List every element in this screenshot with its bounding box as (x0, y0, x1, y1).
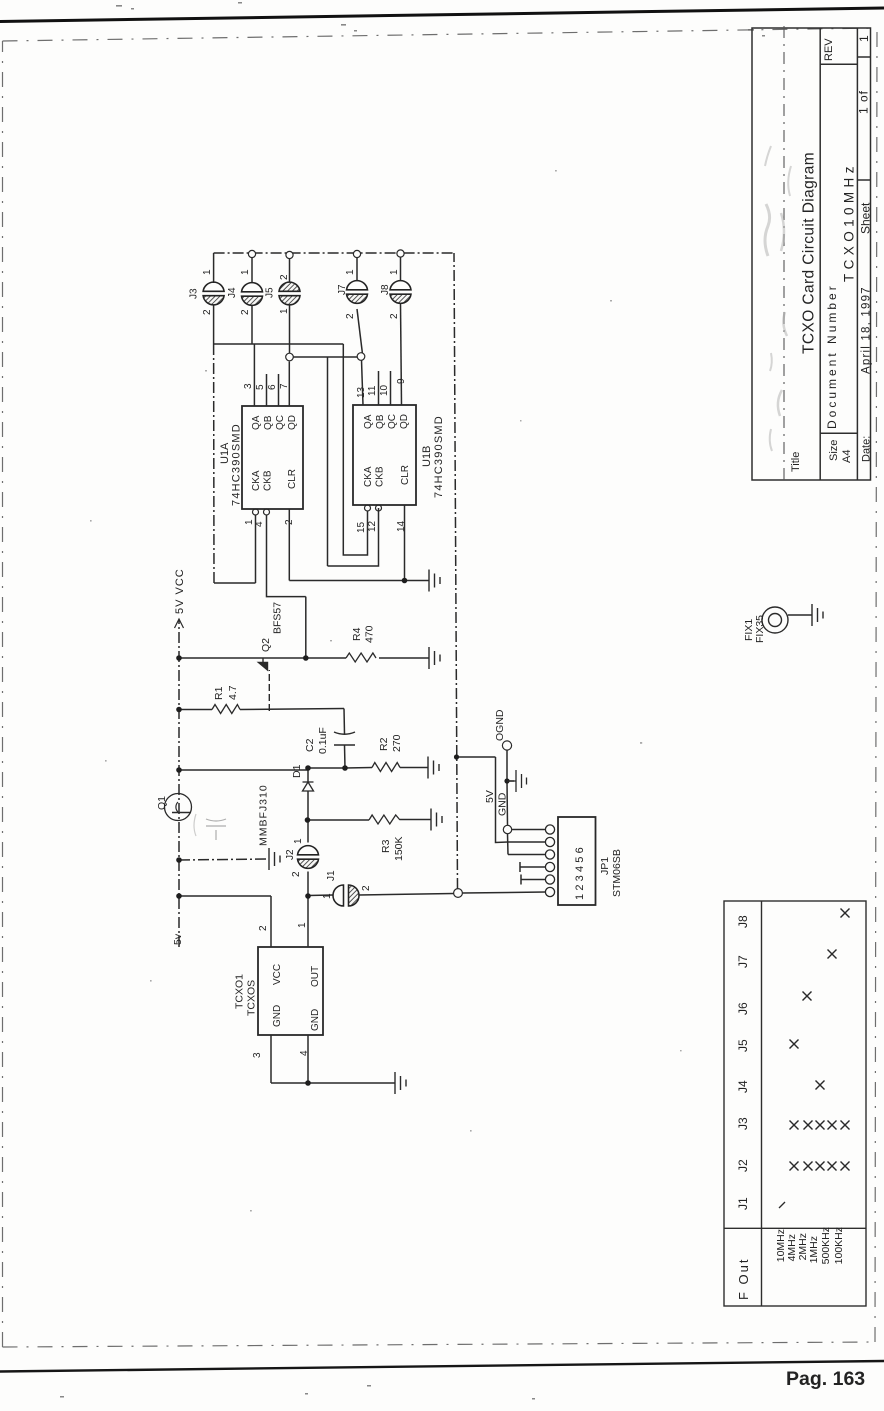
svg-text:J5: J5 (265, 287, 276, 298)
svg-text:150K: 150K (393, 836, 405, 861)
svg-text:2: 2 (279, 274, 290, 280)
svg-text:R1: R1 (213, 686, 225, 700)
svg-text:2: 2 (291, 871, 302, 877)
svg-text:U1A: U1A (219, 442, 231, 464)
svg-text:A4: A4 (841, 450, 853, 463)
svg-text:10: 10 (379, 384, 390, 396)
svg-text:1: 1 (297, 922, 308, 928)
svg-text:R4: R4 (351, 627, 363, 641)
svg-text:3: 3 (243, 383, 254, 389)
svg-text:Document Number: Document Number (825, 283, 839, 429)
svg-text:TCXO1: TCXO1 (234, 974, 246, 1009)
svg-text:Date:: Date: (861, 436, 873, 462)
svg-text:J4: J4 (736, 1080, 750, 1093)
svg-text:VCC: VCC (272, 964, 283, 985)
svg-text:5V VCC: 5V VCC (174, 568, 186, 614)
svg-text:QB: QB (263, 415, 274, 430)
svg-text:J3: J3 (189, 288, 200, 299)
svg-text:QB: QB (375, 414, 386, 429)
svg-text:12: 12 (367, 520, 378, 532)
svg-text:123456: 123456 (574, 844, 586, 900)
svg-text:3: 3 (252, 1052, 263, 1058)
svg-text:2: 2 (345, 313, 356, 319)
svg-text:270: 270 (391, 734, 403, 752)
svg-text:TCXOS: TCXOS (246, 980, 258, 1016)
svg-text:100KHz: 100KHz (833, 1227, 845, 1264)
svg-text:JP1: JP1 (599, 857, 611, 875)
svg-text:15: 15 (356, 521, 367, 533)
svg-text:2: 2 (258, 925, 269, 931)
svg-text:1 of: 1 of (857, 90, 871, 114)
svg-text:GND: GND (310, 1009, 321, 1031)
svg-text:TCXO10MHz: TCXO10MHz (842, 162, 857, 282)
svg-text:5: 5 (255, 384, 266, 390)
svg-text:2: 2 (240, 309, 251, 315)
svg-text:J5: J5 (736, 1039, 750, 1052)
svg-text:500KHz: 500KHz (820, 1227, 832, 1264)
svg-text:1: 1 (240, 269, 251, 275)
svg-text:D1: D1 (291, 764, 303, 778)
svg-text:7: 7 (279, 383, 290, 389)
svg-text:QA: QA (251, 415, 262, 430)
svg-text:1: 1 (345, 269, 356, 275)
svg-text:OGND: OGND (494, 709, 506, 741)
svg-text:QC: QC (275, 415, 286, 430)
svg-text:1: 1 (293, 838, 304, 844)
svg-text:CLR: CLR (400, 465, 411, 485)
svg-text:J4: J4 (227, 287, 238, 298)
svg-text:13: 13 (356, 386, 367, 398)
svg-text:2: 2 (361, 885, 372, 891)
svg-text:6: 6 (267, 384, 278, 390)
svg-text:J7: J7 (337, 284, 348, 295)
svg-text:5v: 5v (172, 933, 184, 945)
svg-text:GND: GND (272, 1005, 283, 1027)
svg-text:R2: R2 (378, 737, 390, 751)
svg-text:FIX35: FIX35 (754, 615, 766, 643)
svg-text:QC: QC (387, 414, 398, 429)
svg-text:74HC390SMD: 74HC390SMD (231, 423, 243, 506)
svg-text:C2: C2 (304, 738, 316, 752)
svg-text:U1B: U1B (421, 446, 433, 467)
svg-text:R3: R3 (380, 839, 392, 853)
svg-text:J1: J1 (326, 870, 337, 881)
svg-text:J6: J6 (736, 1002, 750, 1015)
svg-text:QD: QD (399, 414, 410, 429)
svg-text:470: 470 (364, 625, 376, 643)
svg-text:2: 2 (202, 309, 213, 315)
svg-text:CKB: CKB (375, 466, 386, 487)
svg-text:1: 1 (322, 893, 333, 899)
svg-text:J8: J8 (736, 915, 750, 928)
svg-text:J2: J2 (736, 1159, 750, 1172)
svg-text:5V: 5V (484, 790, 496, 803)
svg-text:MMBFJ310: MMBFJ310 (258, 784, 270, 846)
svg-text:CKA: CKA (363, 466, 374, 487)
svg-text:2: 2 (389, 313, 400, 319)
svg-text:11: 11 (367, 385, 378, 396)
svg-text:1: 1 (389, 269, 400, 275)
svg-text:OUT: OUT (310, 966, 321, 987)
svg-text:1: 1 (857, 35, 871, 42)
svg-text:CLR: CLR (287, 469, 298, 489)
svg-text:0.1uF: 0.1uF (317, 727, 329, 754)
svg-text:4.7: 4.7 (227, 685, 239, 700)
svg-text:1MHz: 1MHz (808, 1236, 820, 1263)
svg-text:QD: QD (287, 415, 298, 430)
svg-text:April 18, 1997: April 18, 1997 (861, 286, 873, 374)
svg-text:J2: J2 (285, 849, 296, 860)
svg-text:GND: GND (497, 792, 509, 816)
svg-text:J3: J3 (736, 1117, 750, 1130)
svg-text:1: 1 (202, 269, 213, 275)
svg-text:Q2: Q2 (260, 638, 272, 652)
svg-text:J1: J1 (736, 1197, 750, 1210)
svg-text:J8: J8 (380, 284, 391, 295)
svg-text:Title: Title (790, 452, 802, 472)
svg-text:STM06SB: STM06SB (611, 849, 623, 897)
svg-text:BFS57: BFS57 (272, 602, 284, 634)
svg-text:Size: Size (828, 440, 840, 461)
svg-text:QA: QA (363, 414, 374, 429)
svg-text:1: 1 (279, 308, 290, 314)
svg-text:CKB: CKB (263, 470, 274, 491)
svg-text:Pag. 163: Pag. 163 (786, 1368, 865, 1390)
svg-text:74HC390SMD: 74HC390SMD (433, 415, 445, 498)
svg-text:F Out: F Out (736, 1257, 751, 1300)
svg-text:TCXO Card Circuit Diagram: TCXO Card Circuit Diagram (801, 152, 818, 354)
svg-text:CKA: CKA (251, 470, 262, 491)
svg-text:REV: REV (823, 38, 835, 61)
svg-text:Sheet: Sheet (859, 202, 873, 234)
svg-text:14: 14 (396, 520, 407, 532)
svg-text:Q1: Q1 (156, 796, 168, 810)
svg-text:J7: J7 (736, 955, 750, 968)
